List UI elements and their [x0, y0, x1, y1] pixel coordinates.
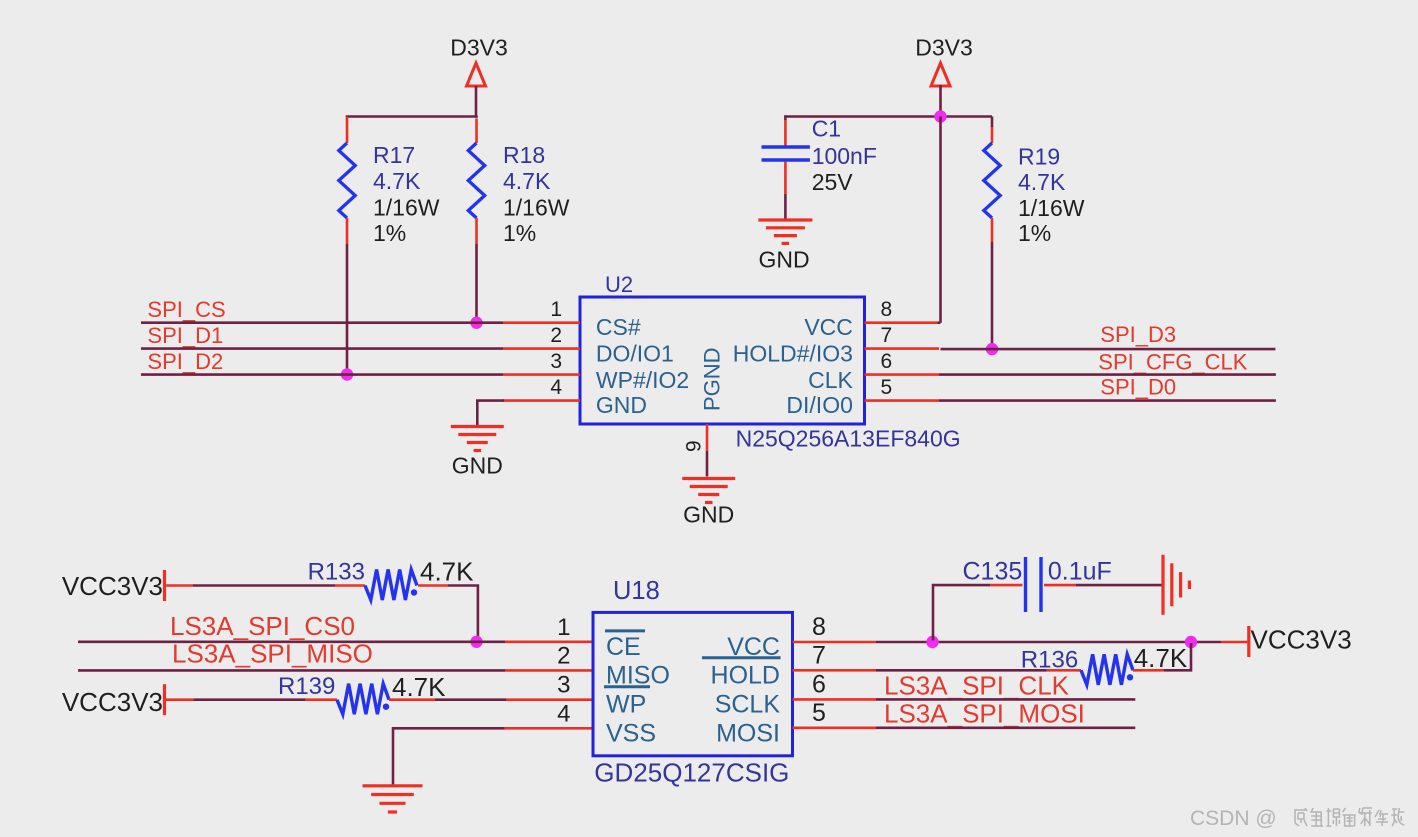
- U2 pin 2: [503, 347, 580, 350]
- power bar VCC3V3 (right): [1247, 626, 1250, 657]
- svg-text:U2: U2: [605, 272, 633, 297]
- svg-text:4.7K: 4.7K: [392, 672, 446, 702]
- svg-text:VCC3V3: VCC3V3: [1251, 625, 1352, 655]
- svg-text:SPI_D3: SPI_D3: [1100, 322, 1176, 347]
- resistor R136: [1047, 654, 1164, 685]
- wire LS3A_SPI_MOSI: [876, 726, 1135, 729]
- svg-text:R136: R136: [1021, 647, 1078, 674]
- U2 pin 3: [503, 373, 580, 376]
- junction node C135 tap: [926, 636, 938, 648]
- svg-text:8: 8: [881, 298, 893, 321]
- svg-text:5: 5: [881, 376, 893, 399]
- svg-text:LS3A_SPI_CLK: LS3A_SPI_CLK: [884, 671, 1070, 701]
- U2 pin 8: [865, 321, 938, 324]
- svg-text:SPI_CS: SPI_CS: [147, 297, 225, 322]
- svg-text:R139: R139: [278, 673, 335, 700]
- wire SPI_D0: [939, 399, 1276, 402]
- junction node D3V3: [934, 110, 946, 122]
- power symbol D3V3 (left): [467, 63, 486, 86]
- power symbol D3V3 (right): [931, 63, 950, 86]
- resistor R18: [468, 119, 484, 245]
- wire: [991, 242, 994, 349]
- wire: [876, 669, 1047, 672]
- ground GND (U18 VSS): [363, 786, 423, 812]
- svg-text:R18: R18: [503, 142, 545, 168]
- U2 pin 5: [865, 399, 940, 402]
- wire: [346, 244, 349, 375]
- svg-text:4.7K: 4.7K: [1018, 169, 1066, 195]
- svg-text:7: 7: [881, 324, 893, 347]
- svg-text:SPI_D0: SPI_D0: [1100, 375, 1176, 400]
- svg-text:GND: GND: [596, 392, 647, 418]
- R18 labels: [503, 142, 570, 246]
- U18 HOLD overbar: [702, 656, 781, 659]
- svg-text:LS3A_SPI_MISO: LS3A_SPI_MISO: [172, 638, 373, 668]
- wire: [448, 586, 478, 641]
- wire SPI_D1: [141, 347, 503, 350]
- svg-text:1: 1: [557, 614, 570, 641]
- svg-text:GND: GND: [452, 452, 503, 478]
- svg-text:2: 2: [550, 324, 562, 347]
- IC U18 body: [593, 612, 793, 755]
- svg-text:VCC3V3: VCC3V3: [62, 687, 163, 717]
- svg-text:CE: CE: [606, 633, 641, 661]
- wire: [393, 728, 505, 785]
- wire SPI_D3: [941, 348, 1276, 351]
- wire: [1076, 584, 1162, 587]
- svg-text:CS#: CS#: [596, 314, 641, 340]
- junction node SPI_D3/R19: [986, 343, 998, 355]
- wire SPI_CS: [141, 321, 503, 324]
- wire: [435, 698, 506, 701]
- power port VCC3V3 (upper left): [62, 571, 163, 601]
- svg-text:3: 3: [557, 672, 570, 699]
- svg-text:R19: R19: [1018, 143, 1060, 169]
- svg-text:VSS: VSS: [606, 719, 656, 747]
- wire: [166, 698, 193, 701]
- U18 pin 3: [506, 698, 593, 701]
- svg-text:N25Q256A13EF840G: N25Q256A13EF840G: [736, 425, 961, 451]
- svg-text:100nF: 100nF: [812, 143, 877, 169]
- svg-text:4.7K: 4.7K: [373, 168, 421, 194]
- wire: [477, 401, 504, 425]
- resistor R139: [305, 684, 435, 715]
- U18 pin 1: [505, 640, 593, 643]
- R19 labels: [1018, 143, 1085, 246]
- wire: [475, 86, 478, 118]
- wire: [166, 584, 193, 587]
- R17 labels: [373, 142, 440, 246]
- svg-text:2: 2: [557, 642, 570, 669]
- svg-text:VCC3V3: VCC3V3: [62, 571, 163, 601]
- capacitor C1: [762, 120, 810, 194]
- watermark CSDN: [1190, 807, 1404, 830]
- capacitor C135: [990, 557, 1076, 612]
- ground GND (rotated, by C135): [1163, 555, 1189, 615]
- svg-text:6: 6: [881, 350, 893, 373]
- ground GND (below C1): [758, 220, 812, 243]
- svg-text:SPI_D2: SPI_D2: [147, 349, 223, 374]
- svg-text:DO/IO1: DO/IO1: [596, 340, 674, 366]
- svg-text:LS3A_SPI_CS0: LS3A_SPI_CS0: [170, 611, 355, 641]
- wire SPI_CFG_CLK: [939, 373, 1276, 376]
- svg-text:SPI_CFG_CLK: SPI_CFG_CLK: [1098, 349, 1247, 374]
- svg-text:WP: WP: [606, 691, 646, 719]
- svg-text:HOLD#/IO3: HOLD#/IO3: [733, 340, 853, 366]
- svg-text:4.7K: 4.7K: [420, 557, 474, 587]
- U18 pin 8: [793, 641, 877, 644]
- U18 pin 2: [505, 669, 593, 672]
- svg-text:HOLD: HOLD: [711, 662, 780, 690]
- wire: [933, 585, 990, 640]
- wire: [193, 698, 305, 701]
- wire: [193, 584, 335, 587]
- svg-text:9: 9: [683, 440, 706, 452]
- svg-text:CLK: CLK: [808, 367, 853, 393]
- wire: [784, 194, 787, 219]
- wire: [346, 115, 478, 118]
- svg-text:GND: GND: [683, 502, 734, 528]
- svg-text:1%: 1%: [1018, 220, 1051, 246]
- junction node SPI_CS/R18: [470, 317, 482, 329]
- svg-text:SPI_D1: SPI_D1: [147, 323, 223, 348]
- svg-text:4: 4: [550, 376, 562, 399]
- svg-text:1%: 1%: [373, 220, 406, 246]
- wire: [939, 85, 942, 117]
- svg-text:D3V3: D3V3: [915, 35, 973, 61]
- power bar VCC3V3 (lower left): [163, 684, 166, 715]
- svg-text:SCLK: SCLK: [715, 691, 781, 719]
- ground GND (pin 4): [451, 427, 504, 451]
- wire: [784, 115, 787, 120]
- svg-text:1%: 1%: [503, 220, 536, 246]
- svg-text:3: 3: [550, 350, 562, 373]
- svg-text:C135: C135: [963, 558, 1023, 586]
- junction node SPI_D2/R17: [341, 368, 353, 380]
- U18 CE overbar: [605, 629, 645, 632]
- U18 pin names: [606, 633, 780, 747]
- U2 pin 7: [865, 347, 940, 350]
- resistor R133: [335, 570, 448, 601]
- svg-text:25V: 25V: [812, 169, 854, 195]
- svg-text:WP#/IO2: WP#/IO2: [596, 367, 689, 393]
- svg-text:U18: U18: [613, 577, 660, 605]
- ground GND (pin 9): [682, 479, 735, 503]
- U2 pin 6: [865, 373, 940, 376]
- svg-text:GND: GND: [758, 246, 809, 272]
- svg-text:1: 1: [550, 298, 562, 321]
- svg-text:PGND: PGND: [700, 347, 725, 411]
- U2 pin 1: [503, 321, 580, 324]
- svg-text:C1: C1: [812, 116, 841, 142]
- junction node R136/VCC3V3: [1185, 636, 1197, 648]
- svg-text:D3V3: D3V3: [450, 35, 508, 61]
- U2 pin 9: [706, 424, 709, 451]
- wire LS3A_SPI_MISO: [78, 669, 505, 672]
- svg-text:8: 8: [812, 613, 826, 641]
- svg-text:1/16W: 1/16W: [503, 195, 570, 221]
- svg-text:1/16W: 1/16W: [373, 195, 440, 221]
- wire: [876, 641, 1221, 644]
- power bar VCC3V3 (upper left): [163, 570, 166, 601]
- U18 pin 5: [793, 726, 877, 729]
- svg-text:4: 4: [557, 700, 570, 727]
- svg-text:CSDN @: CSDN @: [1190, 807, 1277, 830]
- U18 pin 4: [505, 727, 593, 730]
- wire SPI_D2: [141, 373, 503, 376]
- IC U2 body: [580, 297, 865, 424]
- svg-text:GD25Q127CSIG: GD25Q127CSIG: [594, 757, 789, 787]
- svg-text:LS3A_SPI_MOSI: LS3A_SPI_MOSI: [884, 698, 1085, 728]
- U18 pin 7: [793, 669, 877, 672]
- wire: [706, 451, 709, 477]
- svg-text:7: 7: [812, 641, 826, 669]
- wire LS3A_SPI_CLK: [876, 698, 1135, 701]
- svg-text:6: 6: [812, 670, 826, 698]
- svg-text:VCC: VCC: [804, 314, 853, 340]
- C135 labels: [963, 558, 1112, 586]
- svg-text:0.1uF: 0.1uF: [1048, 558, 1112, 586]
- wire: [785, 115, 992, 118]
- svg-text:5: 5: [812, 699, 826, 727]
- svg-text:1/16W: 1/16W: [1018, 195, 1085, 221]
- wire: [939, 117, 942, 323]
- R133 labels: [308, 557, 475, 587]
- svg-text:4.7K: 4.7K: [503, 168, 551, 194]
- wire LS3A_SPI_CS0: [78, 640, 505, 643]
- svg-text:4.7K: 4.7K: [1134, 643, 1188, 673]
- svg-text:R133: R133: [308, 559, 365, 586]
- U2 pin names: [596, 314, 854, 418]
- svg-text:DI/IO0: DI/IO0: [786, 392, 852, 418]
- U18 WP overbar: [604, 685, 650, 688]
- R139 labels: [278, 672, 446, 702]
- R136 labels: [1021, 643, 1188, 674]
- svg-text:MOSI: MOSI: [716, 719, 780, 747]
- svg-text:R17: R17: [373, 142, 415, 168]
- U2 pin 4: [503, 399, 580, 402]
- C1 labels: [812, 116, 877, 195]
- wire: [938, 321, 941, 324]
- resistor R19: [984, 117, 1000, 243]
- U18 pin 6: [793, 698, 877, 701]
- junction node LS3A_SPI_CS0/R133: [470, 636, 482, 648]
- wire: [1164, 643, 1191, 670]
- resistor R17: [339, 117, 355, 245]
- wire: [1221, 641, 1247, 644]
- wire: [475, 244, 478, 322]
